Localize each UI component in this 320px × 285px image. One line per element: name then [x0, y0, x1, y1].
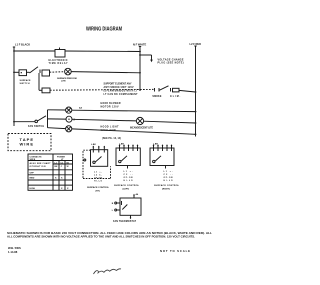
- svg-text:HOOD LIGHT: HOOD LIGHT: [101, 127, 120, 129]
- svg-text:ELECTRONIC: ELECTRONIC: [49, 60, 68, 62]
- svg-text:OFF: OFF: [30, 173, 35, 175]
- svg-text:SW B: SW B: [30, 159, 36, 161]
- svg-text:W.B. 500S: W.B. 500S: [8, 246, 21, 250]
- svg-text:L1 +-: L1 +-: [94, 171, 102, 173]
- svg-text:SURFACE: SURFACE: [20, 79, 32, 82]
- svg-text:ANTI SMOKE UNIT 120V: ANTI SMOKE UNIT 120V: [104, 86, 134, 89]
- svg-text:MOTOR 120V: MOTOR 120V: [101, 106, 119, 108]
- svg-text:FAN THERMOSTAT: FAN THERMOSTAT: [113, 220, 137, 223]
- svg-text:NOT TO SCALE: NOT TO SCALE: [160, 249, 190, 253]
- svg-text:L-BK: L-BK: [91, 144, 96, 146]
- svg-text:(LEFT): (LEFT): [123, 189, 130, 191]
- svg-text:L-BR: L-BR: [153, 143, 158, 145]
- svg-text:L2 F RED: L2 F RED: [190, 42, 202, 46]
- svg-text:HI-LO: HI-LO: [124, 180, 133, 182]
- svg-text:SUPPORT ELEMENT ANY: SUPPORT ELEMENT ANY: [104, 83, 132, 86]
- svg-text:L-BR: L-BR: [119, 143, 124, 145]
- svg-text:INCANDESCENT LITE: INCANDESCENT LITE: [130, 126, 153, 129]
- svg-text:CONTACTS: CONTACTS: [30, 155, 43, 158]
- svg-text:N F WHITE: N F WHITE: [133, 43, 147, 47]
- svg-text:LT CAN BK COMPLEMENT: LT CAN BK COMPLEMENT: [104, 93, 139, 96]
- svg-text:ALSO SEE CHART: ALSO SEE CHART: [30, 162, 52, 165]
- svg-text:HIGH: HIGH: [30, 188, 36, 190]
- svg-text:C2 --: C2 --: [164, 174, 173, 176]
- svg-text:SWITCH: SWITCH: [20, 83, 30, 85]
- svg-text:ELIM.: ELIM.: [170, 96, 180, 98]
- svg-text:L2-CAN BRIDGE WITH LT: L2-CAN BRIDGE WITH LT: [104, 90, 139, 93]
- svg-text:TIME DELAY: TIME DELAY: [49, 62, 68, 65]
- svg-text:(SEE PG. 13, 14): (SEE PG. 13, 14): [102, 137, 121, 140]
- svg-text:SURFACE PRECOOK: SURFACE PRECOOK: [57, 77, 77, 80]
- svg-text:ALL COMPONENTS ARE SHOWN WITH: ALL COMPONENTS ARE SHOWN WITH NO VOLTAGE…: [7, 235, 195, 239]
- svg-text:SURFACE CONTROL: SURFACE CONTROL: [154, 184, 180, 187]
- svg-text:FAN SWITCH: FAN SWITCH: [28, 125, 44, 128]
- svg-text:L1 F BLACK: L1 F BLACK: [15, 42, 30, 46]
- svg-text:SMOKE: SMOKE: [152, 96, 161, 98]
- svg-text:SURFACE CONTROL: SURFACE CONTROL: [87, 186, 110, 189]
- svg-text:OF-ON: OF-ON: [124, 177, 134, 179]
- svg-text:120V 60W: 120V 60W: [101, 130, 117, 132]
- svg-text:(RIGHT): (RIGHT): [162, 189, 170, 191]
- svg-text:L1 +-: L1 +-: [164, 171, 173, 173]
- svg-text:HI-LO: HI-LO: [94, 180, 102, 182]
- svg-text:LITE: LITE: [61, 80, 66, 82]
- svg-text:MED: MED: [30, 178, 35, 180]
- svg-text:OPERATION: OPERATION: [30, 165, 46, 168]
- svg-text:L1 +-: L1 +-: [124, 171, 133, 173]
- svg-text:WIRING DIAGRAM: WIRING DIAGRAM: [86, 27, 122, 33]
- svg-text:C2 --: C2 --: [124, 174, 133, 176]
- svg-text:SURFACE CONTROL: SURFACE CONTROL: [114, 184, 140, 187]
- svg-text:PLUG (SEE NOTE): PLUG (SEE NOTE): [158, 62, 184, 65]
- svg-text:WIRE: WIRE: [20, 141, 34, 146]
- svg-text:L2 C-: L2 C-: [94, 174, 102, 176]
- svg-text:1-14-88: 1-14-88: [8, 250, 18, 254]
- svg-text:W: W: [67, 166, 69, 168]
- svg-text:OF-ON: OF-ON: [94, 177, 103, 179]
- svg-text:HOOD BLOWER: HOOD BLOWER: [101, 103, 121, 105]
- svg-text:OF-ON: OF-ON: [164, 177, 174, 179]
- svg-text:HI-LO: HI-LO: [164, 180, 173, 182]
- svg-text:(RT): (RT): [96, 190, 100, 192]
